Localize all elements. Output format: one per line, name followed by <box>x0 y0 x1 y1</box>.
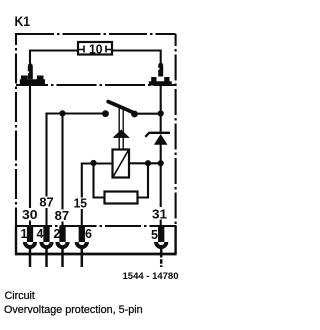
plug socket (left) <box>20 76 45 85</box>
wire: left plug up to fuse <box>30 51 78 66</box>
relay coil <box>113 150 130 178</box>
junction: 15 wire / resistor branch <box>90 160 96 166</box>
zener diode anode triangle <box>154 134 168 145</box>
relay armature plate <box>113 130 130 138</box>
svg-text:30: 30 <box>22 207 38 222</box>
zener diode cathode hook <box>145 133 149 137</box>
armature actuator link (double line) <box>119 105 123 150</box>
junction: coil right / resistor right <box>145 160 151 166</box>
zener diode cathode bar <box>149 132 171 134</box>
svg-text:K1: K1 <box>15 13 31 29</box>
svg-text:87: 87 <box>39 194 53 209</box>
wire: terminal 87 (pin 4) riser and rail to switch contact <box>47 114 106 227</box>
connector pin 4 <box>37 226 52 268</box>
wire: fuse to right plug <box>112 51 161 65</box>
terminal label masks <box>21 197 169 222</box>
plug pin terminal 30 (left) <box>27 63 32 79</box>
junction: rail / right plug / zener <box>158 110 164 116</box>
connector strip top edge (dash-dot housing bottom) <box>16 225 177 227</box>
relay housing border top (dash-dot) <box>16 33 176 35</box>
connector pin 1 <box>21 226 36 268</box>
switch blade <box>108 102 132 113</box>
wire: zener down to terminal 31 / pin 5 <box>160 144 162 226</box>
svg-text:6: 6 <box>85 227 92 241</box>
caption line 2 <box>4 304 143 316</box>
wire: resistor left branch <box>94 163 105 198</box>
svg-text:15: 15 <box>74 195 87 210</box>
housing entry dash-dot line through plug sockets <box>16 84 176 86</box>
svg-text:4: 4 <box>37 227 44 241</box>
plug pin terminal 31 feed (right) <box>158 63 163 77</box>
plug socket (right) <box>149 77 172 86</box>
switch pivot contact (right) <box>131 111 138 118</box>
svg-text:10: 10 <box>89 42 103 57</box>
wire: right socket down to rail junction and zener <box>160 86 162 132</box>
caption line 1 <box>5 290 35 302</box>
wire: terminal 87 (pin 2) riser <box>61 114 63 227</box>
connector strip left edge <box>15 226 17 254</box>
wire: left socket down to strip pin 1 <box>29 86 31 227</box>
resistor (coil shunt) <box>105 192 138 204</box>
junction: coil right / 31 column <box>158 160 164 166</box>
connector pin 5 <box>151 226 166 268</box>
wire: resistor right branch <box>138 163 149 198</box>
connector pin 2 <box>54 226 68 268</box>
fuse 10 <box>78 42 112 57</box>
junction: 87 rail tee <box>59 110 65 116</box>
wire: coil right to terminal 31 column <box>129 162 161 164</box>
svg-text:1544 - 14780: 1544 - 14780 <box>123 271 179 281</box>
relay housing border right (dash-dot) <box>175 34 177 226</box>
wire: switch right contact to right column <box>135 113 161 115</box>
svg-text:1: 1 <box>21 227 28 241</box>
connector strip bottom edge <box>15 253 177 256</box>
relay housing border left (dash-dot) <box>15 33 17 226</box>
connector strip right edge <box>174 226 176 254</box>
wire: terminal 15 (pin 6) riser to coil left <box>82 164 113 227</box>
connector pin 6 <box>77 226 92 268</box>
switch fixed contact (left) <box>102 110 109 117</box>
svg-text:5: 5 <box>151 228 158 242</box>
svg-text:87: 87 <box>55 208 70 223</box>
svg-text:2: 2 <box>54 227 61 241</box>
svg-text:31: 31 <box>152 207 167 222</box>
